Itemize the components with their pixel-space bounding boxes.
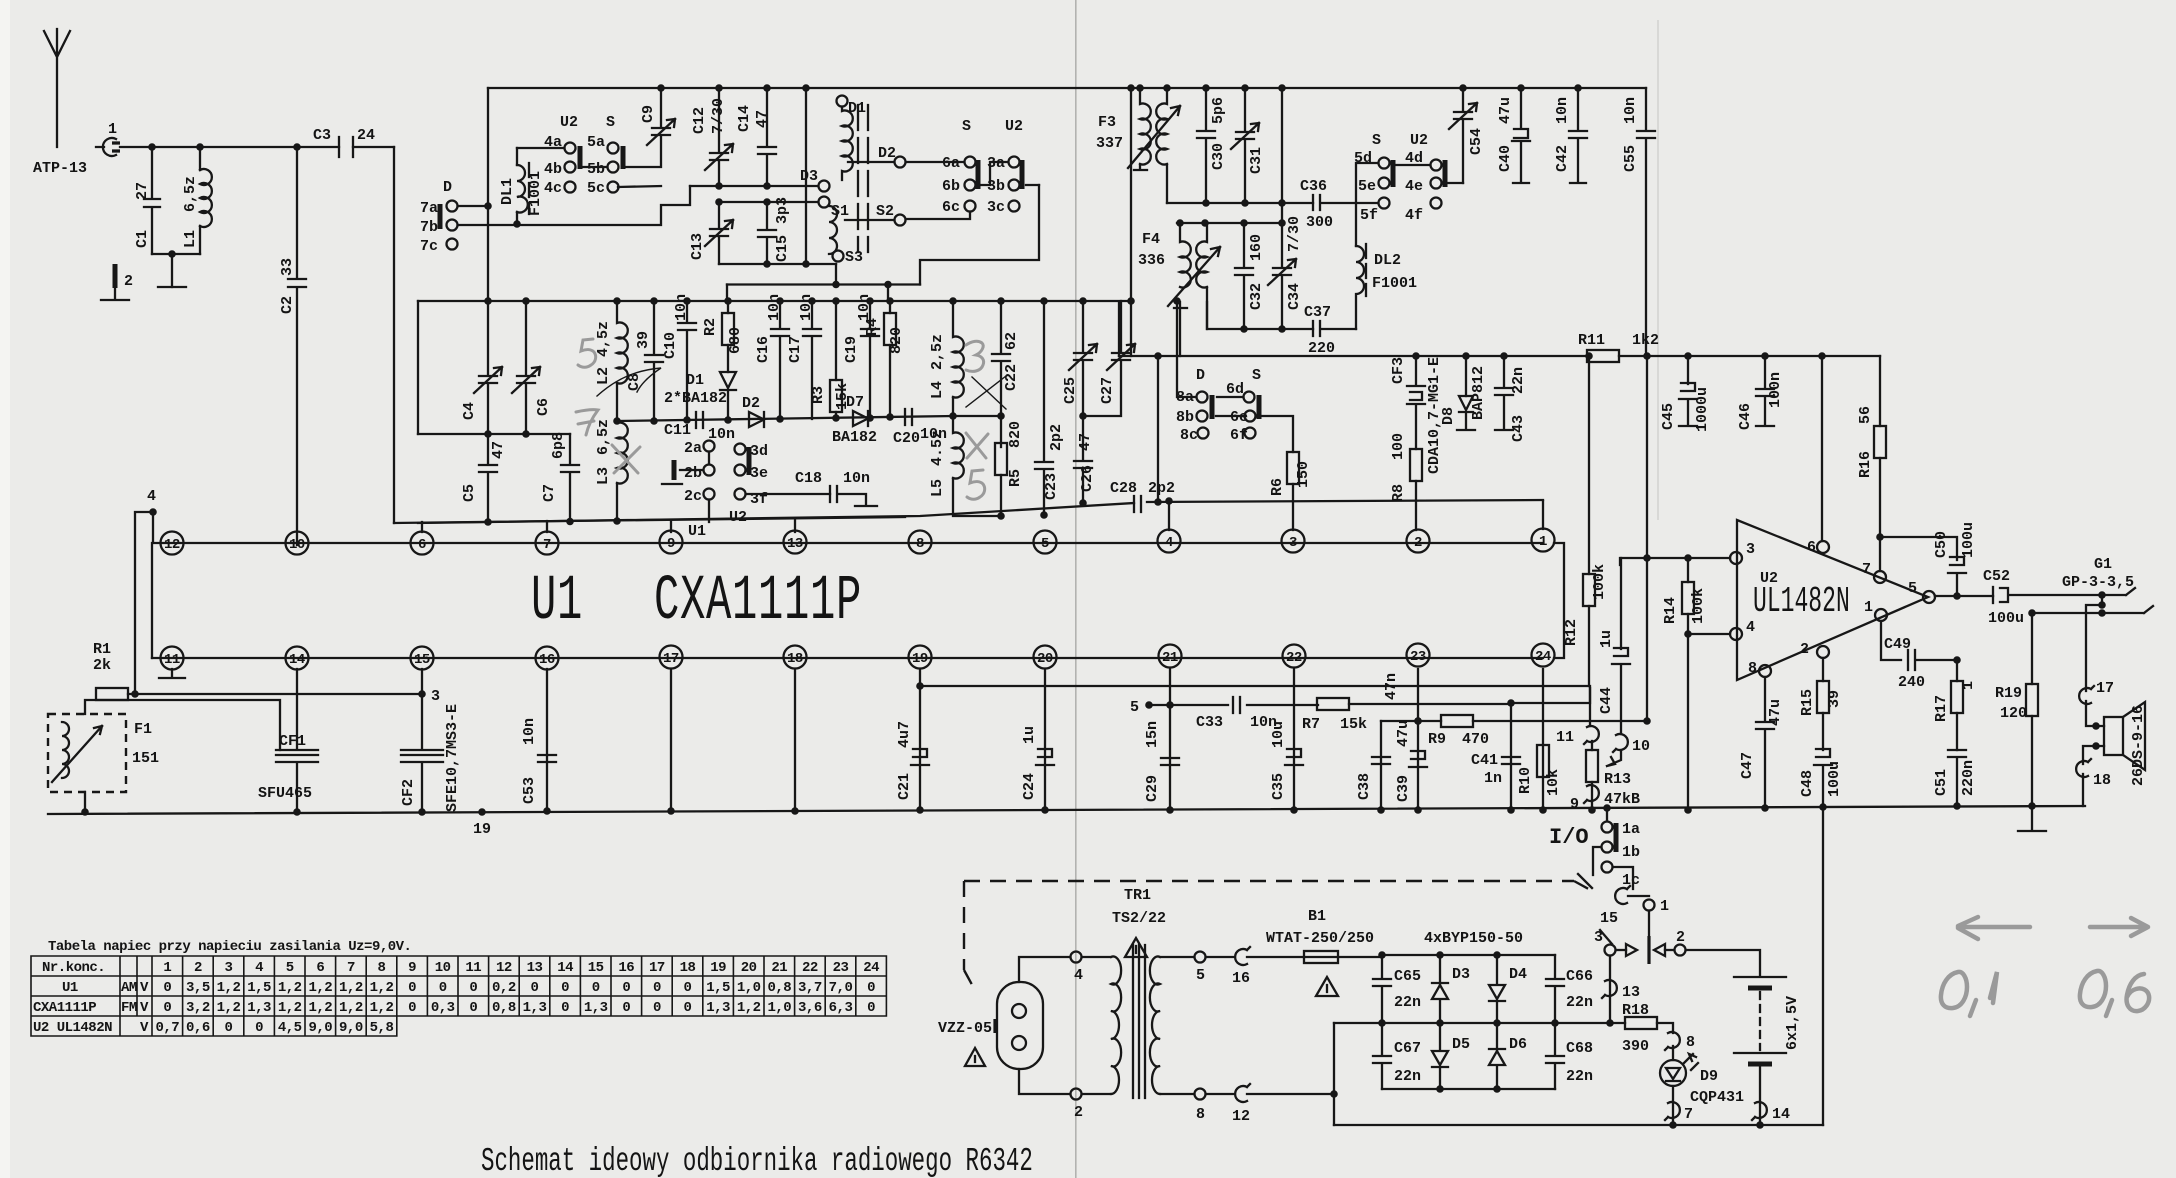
svg-text:1: 1 bbox=[1960, 681, 1977, 690]
svg-text:V: V bbox=[140, 1000, 149, 1016]
svg-text:1: 1 bbox=[1539, 534, 1547, 550]
svg-text:4: 4 bbox=[255, 960, 263, 976]
top supply rail bbox=[488, 87, 1646, 89]
svg-text:C18: C18 bbox=[795, 470, 822, 487]
capacitor C36 300 bbox=[1300, 178, 1378, 231]
svg-text:3p3: 3p3 bbox=[774, 197, 791, 224]
connector 1 ATP-13 bbox=[33, 121, 120, 177]
IC U1 pin 21 bbox=[1159, 645, 1182, 668]
wire S2 tap bbox=[845, 203, 906, 226]
capacitor C51 220n bbox=[1933, 750, 1977, 810]
svg-text:R9: R9 bbox=[1428, 731, 1446, 748]
wire AGC line from pin19 column bbox=[916, 682, 1590, 726]
rectifier label bbox=[1424, 930, 1523, 947]
IC U1 pin 9 bbox=[660, 531, 683, 554]
wire from C3 down to IF lower rail bbox=[393, 147, 395, 523]
svg-text:0,3: 0,3 bbox=[431, 1000, 455, 1016]
svg-text:18: 18 bbox=[680, 960, 696, 976]
resistor R14 100k bbox=[1662, 554, 1707, 814]
svg-text:10n: 10n bbox=[673, 294, 690, 321]
capacitor C55 10n bbox=[1622, 88, 1655, 356]
capacitor C43 22n bbox=[1495, 356, 1527, 442]
diode D5 bbox=[1432, 1023, 1470, 1089]
diode D6 bbox=[1489, 1023, 1527, 1089]
potentiometer R13 47kB bbox=[1556, 726, 1640, 814]
svg-text:5,8: 5,8 bbox=[370, 1020, 394, 1036]
svg-text:TR1: TR1 bbox=[1124, 887, 1151, 904]
svg-text:D: D bbox=[1196, 367, 1205, 384]
svg-text:1: 1 bbox=[1660, 898, 1669, 915]
svg-text:U2: U2 bbox=[1005, 118, 1023, 135]
svg-text:3c: 3c bbox=[987, 199, 1005, 216]
svg-text:C25: C25 bbox=[1062, 377, 1079, 404]
capacitor C34 7/30 (variable) bbox=[1268, 84, 1303, 333]
capacitor C17 10n bbox=[787, 294, 821, 419]
svg-text:4b: 4b bbox=[544, 161, 562, 178]
table header row bbox=[42, 960, 879, 976]
svg-text:1,0: 1,0 bbox=[767, 1000, 791, 1016]
svg-text:100: 100 bbox=[1390, 433, 1407, 460]
svg-text:13: 13 bbox=[1622, 984, 1640, 1001]
svg-text:AM: AM bbox=[121, 980, 137, 996]
svg-text:C32: C32 bbox=[1248, 283, 1265, 310]
switch contacts 4d 4e 4f (U2) bbox=[1396, 132, 1463, 224]
svg-text:160: 160 bbox=[1248, 234, 1265, 261]
node 19 on ground rail bbox=[473, 808, 491, 838]
svg-text:6: 6 bbox=[1807, 539, 1816, 556]
svg-text:16: 16 bbox=[618, 960, 634, 976]
svg-text:10n: 10n bbox=[1622, 97, 1639, 124]
svg-text:GP-3-3,5: GP-3-3,5 bbox=[2062, 574, 2134, 591]
IC U1 pin 7 bbox=[536, 532, 559, 555]
svg-text:1,3: 1,3 bbox=[247, 1000, 271, 1016]
svg-text:9,0: 9,0 bbox=[308, 1020, 332, 1036]
svg-text:D8: D8 bbox=[1440, 407, 1457, 425]
svg-text:7b: 7b bbox=[420, 219, 438, 236]
svg-text:0: 0 bbox=[255, 1020, 263, 1036]
svg-text:5c: 5c bbox=[587, 180, 605, 197]
svg-text:C47: C47 bbox=[1739, 752, 1756, 779]
svg-text:6: 6 bbox=[418, 537, 426, 553]
capacitor C37 220 bbox=[1304, 304, 1356, 357]
svg-text:9: 9 bbox=[408, 960, 416, 976]
loudspeaker 26DS-9-16 bbox=[2076, 680, 2147, 806]
svg-text:4xBYP150-50: 4xBYP150-50 bbox=[1424, 930, 1523, 947]
svg-text:DL1: DL1 bbox=[499, 178, 516, 205]
svg-text:3,6: 3,6 bbox=[798, 1000, 822, 1016]
svg-text:0: 0 bbox=[592, 980, 600, 996]
svg-text:SFE10,7MS3-E: SFE10,7MS3-E bbox=[444, 704, 461, 812]
svg-text:I/O: I/O bbox=[1549, 825, 1589, 850]
capacitor C9 (variable) bbox=[625, 84, 675, 167]
svg-text:R14: R14 bbox=[1662, 597, 1679, 624]
capacitor C26 47 bbox=[1074, 416, 1096, 507]
svg-text:D2: D2 bbox=[742, 395, 760, 412]
IC U1 pin 14 bbox=[286, 647, 309, 670]
svg-text:21: 21 bbox=[771, 960, 787, 976]
ceramic filter CF3 CDA10,7-MG1-E bbox=[1390, 356, 1443, 530]
capacitor C35 10u bbox=[1270, 721, 1303, 814]
resistor R11 1k2 bbox=[1578, 332, 1659, 362]
wire DL2 column bbox=[1356, 163, 1378, 246]
mains plug VZZ-05 bbox=[938, 982, 1043, 1069]
svg-text:0: 0 bbox=[867, 1000, 875, 1016]
svg-text:47n: 47n bbox=[1383, 673, 1400, 700]
IC U1 pin 24 bbox=[1532, 644, 1555, 667]
inductor L3 6,5z bbox=[595, 417, 628, 522]
svg-text:D2: D2 bbox=[878, 145, 896, 162]
svg-text:15k: 15k bbox=[1340, 716, 1367, 733]
switch contacts 2a 2b 2c bbox=[684, 440, 715, 522]
svg-text:6c: 6c bbox=[942, 199, 960, 216]
svg-text:820: 820 bbox=[1007, 421, 1024, 448]
svg-text:0: 0 bbox=[561, 1000, 569, 1016]
svg-text:6b: 6b bbox=[942, 178, 960, 195]
capacitor C40 47u bbox=[1497, 84, 1530, 183]
svg-text:23: 23 bbox=[833, 960, 849, 976]
capacitor C45 1000u bbox=[1660, 356, 1711, 432]
svg-text:S: S bbox=[1372, 132, 1381, 149]
svg-text:7: 7 bbox=[1684, 1106, 1693, 1123]
capacitor C50 100u bbox=[1880, 522, 1977, 597]
pencil note 0,1 bbox=[1941, 972, 1997, 1016]
svg-text:C29: C29 bbox=[1144, 775, 1161, 802]
svg-text:100u: 100u bbox=[1960, 522, 1977, 558]
svg-text:19: 19 bbox=[473, 821, 491, 838]
wire F4 lower line bbox=[1207, 302, 1313, 329]
output node bbox=[1935, 592, 1993, 600]
svg-text:3: 3 bbox=[431, 688, 440, 705]
svg-text:R12: R12 bbox=[1563, 619, 1580, 646]
svg-text:5: 5 bbox=[286, 960, 294, 976]
svg-text:C65: C65 bbox=[1394, 968, 1421, 985]
wire D2 tap bbox=[848, 145, 906, 168]
IC U1 pin 17 bbox=[660, 646, 683, 669]
svg-text:1k2: 1k2 bbox=[1632, 332, 1659, 349]
svg-text:FM: FM bbox=[121, 1000, 137, 1016]
svg-text:L2: L2 bbox=[595, 367, 612, 385]
svg-text:1,2: 1,2 bbox=[370, 980, 394, 996]
svg-text:1,2: 1,2 bbox=[278, 980, 302, 996]
wire input node bbox=[120, 143, 394, 151]
IC U1 name label bbox=[531, 566, 862, 638]
svg-text:6p8: 6p8 bbox=[550, 432, 567, 459]
svg-text:14: 14 bbox=[289, 652, 305, 668]
svg-text:C27: C27 bbox=[1099, 377, 1116, 404]
voltage table title bbox=[48, 939, 411, 955]
svg-text:10n: 10n bbox=[843, 470, 870, 487]
svg-text:22n: 22n bbox=[1394, 1068, 1421, 1085]
svg-text:47u: 47u bbox=[1497, 97, 1514, 124]
capacitor C14 47 bbox=[736, 84, 776, 186]
antenna bbox=[44, 29, 70, 147]
svg-text:21: 21 bbox=[1162, 650, 1178, 666]
capacitor C41 1n bbox=[1471, 699, 1520, 814]
svg-text:CF2: CF2 bbox=[400, 779, 417, 806]
capacitor C18 10n bbox=[795, 470, 877, 506]
switch contacts 6a 6b 6c (S) bbox=[906, 118, 978, 219]
svg-text:C12: C12 bbox=[691, 107, 708, 134]
svg-text:23: 23 bbox=[1410, 649, 1426, 665]
svg-text:18: 18 bbox=[2093, 772, 2111, 789]
svg-text:3: 3 bbox=[1746, 541, 1755, 558]
svg-text:14: 14 bbox=[557, 960, 573, 976]
svg-text:C24: C24 bbox=[1021, 773, 1038, 800]
svg-text:3: 3 bbox=[1594, 929, 1603, 946]
svg-text:22n: 22n bbox=[1510, 367, 1527, 394]
IC U1 pin 6 bbox=[411, 532, 434, 555]
pen curve over L2 bbox=[597, 368, 661, 396]
resistor R6 150 bbox=[1256, 416, 1312, 530]
IC U1 pin 3 bbox=[1282, 530, 1305, 553]
svg-text:V: V bbox=[140, 980, 149, 996]
svg-text:C35: C35 bbox=[1270, 773, 1287, 800]
svg-text:R3: R3 bbox=[810, 386, 827, 404]
svg-text:R1: R1 bbox=[93, 641, 111, 658]
capacitor C7 6p8 bbox=[541, 432, 579, 521]
svg-text:120: 120 bbox=[2000, 705, 2027, 722]
dashed chassis outline bbox=[964, 881, 1596, 992]
svg-text:C66: C66 bbox=[1566, 968, 1593, 985]
svg-text:10n: 10n bbox=[521, 718, 538, 745]
wire U1 pin row 1 bbox=[161, 542, 1543, 544]
svg-text:2b: 2b bbox=[684, 465, 702, 482]
svg-text:5e: 5e bbox=[1358, 178, 1376, 195]
capacitor C11 10n bbox=[664, 412, 735, 443]
resistor R16 56 bbox=[1857, 356, 1886, 571]
switch contacts 5d 5e 5f (S) bbox=[1354, 132, 1393, 224]
svg-text:10: 10 bbox=[1632, 738, 1650, 755]
svg-text:15n: 15n bbox=[1144, 721, 1161, 748]
svg-text:3e: 3e bbox=[750, 465, 768, 482]
svg-text:5p6: 5p6 bbox=[1210, 97, 1227, 124]
svg-text:R7: R7 bbox=[1302, 716, 1320, 733]
svg-text:CXA1111P: CXA1111P bbox=[33, 1000, 96, 1016]
capacitor C23 2p2 bbox=[1035, 297, 1065, 519]
svg-text:3,5: 3,5 bbox=[186, 980, 210, 996]
svg-text:R15: R15 bbox=[1799, 689, 1816, 716]
svg-text:1,3: 1,3 bbox=[584, 1000, 608, 1016]
svg-text:D3: D3 bbox=[800, 168, 818, 185]
svg-text:C51: C51 bbox=[1933, 769, 1950, 796]
svg-text:2*BA182: 2*BA182 bbox=[664, 390, 727, 407]
svg-text:6a: 6a bbox=[942, 155, 960, 172]
pen X over L4 bbox=[966, 376, 1006, 409]
wire 7a to box bbox=[458, 202, 492, 210]
svg-text:C10: C10 bbox=[662, 332, 679, 359]
wire U1 pin row 2 bbox=[152, 543, 1543, 658]
svg-text:7: 7 bbox=[543, 537, 551, 553]
capacitor C66 22n bbox=[1546, 955, 1593, 1023]
svg-text:680: 680 bbox=[727, 327, 744, 354]
svg-text:22n: 22n bbox=[1394, 994, 1421, 1011]
svg-text:10u: 10u bbox=[1270, 721, 1287, 748]
svg-text:1u: 1u bbox=[1021, 726, 1038, 744]
svg-text:R13: R13 bbox=[1604, 771, 1631, 788]
svg-text:20: 20 bbox=[741, 960, 757, 976]
connector 7a 7b 7c (D) bbox=[420, 179, 458, 255]
svg-text:9,0: 9,0 bbox=[339, 1020, 363, 1036]
svg-text:D6: D6 bbox=[1509, 1036, 1527, 1053]
svg-text:F1: F1 bbox=[134, 721, 152, 738]
capacitor C29 15n bbox=[1144, 721, 1179, 814]
svg-text:8: 8 bbox=[1686, 1034, 1695, 1051]
svg-text:1,2: 1,2 bbox=[217, 980, 241, 996]
svg-text:C14: C14 bbox=[736, 105, 753, 132]
svg-text:7c: 7c bbox=[420, 238, 438, 255]
svg-text:26DS-9-16: 26DS-9-16 bbox=[2130, 705, 2147, 786]
svg-text:CQP431: CQP431 bbox=[1690, 1089, 1744, 1106]
IC U1 pin 4 bbox=[1158, 530, 1181, 553]
svg-text:2: 2 bbox=[1676, 929, 1685, 946]
wire bracket pin1-pin24 bbox=[1554, 543, 1564, 658]
svg-text:11: 11 bbox=[465, 960, 481, 976]
diode D3 bbox=[1432, 955, 1470, 1023]
svg-text:0: 0 bbox=[439, 980, 447, 996]
svg-text:F1001: F1001 bbox=[527, 171, 544, 216]
svg-text:D7: D7 bbox=[846, 394, 864, 411]
svg-text:L3: L3 bbox=[595, 467, 612, 485]
svg-text:10n: 10n bbox=[766, 294, 783, 321]
capacitor C44 1u bbox=[1598, 558, 1630, 734]
svg-text:0: 0 bbox=[653, 980, 661, 996]
svg-text:V: V bbox=[140, 1020, 149, 1036]
svg-text:BA182: BA182 bbox=[832, 429, 877, 446]
capacitor C19 10n bbox=[843, 294, 879, 422]
inductor L1 6,5z bbox=[182, 147, 212, 254]
svg-text:U1: U1 bbox=[688, 523, 706, 540]
svg-text:D4: D4 bbox=[1509, 966, 1527, 983]
svg-text:0,6: 0,6 bbox=[186, 1020, 210, 1036]
svg-text:19: 19 bbox=[912, 651, 928, 667]
switch contacts 5a 5b 5c (S) bbox=[583, 114, 623, 197]
svg-text:S: S bbox=[962, 118, 971, 135]
svg-text:0: 0 bbox=[408, 1000, 416, 1016]
svg-text:1,2: 1,2 bbox=[737, 1000, 761, 1016]
svg-text:18: 18 bbox=[787, 651, 803, 667]
capacitor C21 4u7 bbox=[896, 721, 929, 814]
warning triangle 1 bbox=[965, 1048, 985, 1066]
svg-text:D: D bbox=[443, 179, 452, 196]
IC U1 pin 1 bbox=[1532, 529, 1555, 552]
svg-text:0,2: 0,2 bbox=[492, 980, 516, 996]
svg-text:U2: U2 bbox=[1410, 132, 1428, 149]
svg-text:7: 7 bbox=[1862, 561, 1871, 578]
voltage table grid bbox=[31, 956, 886, 1036]
bridge bottom line bbox=[1382, 1085, 1555, 1093]
svg-text:6: 6 bbox=[316, 960, 324, 976]
handwritten pencil 5 bbox=[578, 339, 596, 367]
svg-text:R17: R17 bbox=[1933, 695, 1950, 722]
svg-text:R16: R16 bbox=[1857, 451, 1874, 478]
svg-text:CF3: CF3 bbox=[1390, 357, 1407, 384]
capacitor C39 47u bbox=[1395, 717, 1427, 814]
svg-text:0: 0 bbox=[622, 1000, 630, 1016]
svg-text:22n: 22n bbox=[1566, 994, 1593, 1011]
svg-text:10n: 10n bbox=[1554, 97, 1571, 124]
svg-text:100u: 100u bbox=[1988, 610, 2024, 627]
svg-text:1u: 1u bbox=[1598, 630, 1615, 648]
capacitor C25 (variable) bbox=[1062, 297, 1097, 420]
wire rail to input bbox=[1643, 352, 1651, 721]
svg-text:62: 62 bbox=[1003, 332, 1020, 350]
IC U1 pin 19 bbox=[909, 646, 932, 669]
svg-text:C21: C21 bbox=[896, 773, 913, 800]
svg-text:10k: 10k bbox=[1545, 769, 1562, 796]
svg-text:4: 4 bbox=[1074, 967, 1083, 984]
resistor R9 470 bbox=[1381, 715, 1651, 748]
svg-text:24: 24 bbox=[863, 960, 879, 976]
svg-text:C53: C53 bbox=[521, 777, 538, 804]
svg-text:Tabela napiec przy napieciu za: Tabela napiec przy napieciu zasilania Uz… bbox=[48, 939, 411, 955]
svg-text:C22: C22 bbox=[1003, 364, 1020, 391]
svg-text:2p2: 2p2 bbox=[1048, 424, 1065, 451]
resistor R18 390 bbox=[1622, 1002, 1673, 1055]
svg-text:6,3: 6,3 bbox=[829, 1000, 853, 1016]
svg-text:0: 0 bbox=[561, 980, 569, 996]
svg-text:20: 20 bbox=[1037, 651, 1053, 667]
svg-text:2: 2 bbox=[1414, 535, 1422, 551]
diode D8 BAP812 bbox=[1440, 356, 1487, 430]
svg-text:6,5z: 6,5z bbox=[182, 176, 199, 212]
svg-text:17: 17 bbox=[663, 651, 679, 667]
svg-text:D1: D1 bbox=[686, 372, 704, 389]
svg-text:470: 470 bbox=[1462, 731, 1489, 748]
handwritten pencil X over L5 bbox=[966, 433, 988, 458]
switch contacts 4a 4b 4c (U2) bbox=[517, 114, 580, 197]
svg-text:100n: 100n bbox=[1767, 372, 1784, 408]
svg-text:0: 0 bbox=[469, 1000, 477, 1016]
svg-text:R2: R2 bbox=[702, 318, 719, 336]
capacitor C24 1u bbox=[1021, 726, 1054, 814]
svg-text:U1: U1 bbox=[62, 980, 78, 996]
svg-text:1,2: 1,2 bbox=[370, 1000, 394, 1016]
switch contacts 8a 8b 8c (D) bbox=[1173, 297, 1212, 444]
svg-text:L1: L1 bbox=[182, 230, 199, 248]
svg-text:WTAT-250/250: WTAT-250/250 bbox=[1266, 930, 1374, 947]
svg-text:16: 16 bbox=[1232, 970, 1250, 987]
svg-text:19: 19 bbox=[710, 960, 726, 976]
svg-text:2a: 2a bbox=[684, 440, 702, 457]
capacitor C47 47u bbox=[1739, 677, 1784, 812]
svg-text:16: 16 bbox=[539, 652, 555, 668]
svg-text:SFU465: SFU465 bbox=[258, 785, 312, 802]
svg-text:24: 24 bbox=[1535, 649, 1551, 665]
ceramic filter CF2 SFE10,7MS3-E bbox=[400, 669, 461, 812]
ground at pin 11 bbox=[159, 669, 185, 678]
svg-text:10n: 10n bbox=[798, 294, 815, 321]
svg-text:5a: 5a bbox=[587, 134, 605, 151]
jack terminal 2 with ground bbox=[101, 264, 133, 300]
svg-text:D9: D9 bbox=[1700, 1068, 1718, 1085]
capacitor C52 100u bbox=[1983, 568, 2024, 627]
wire C4/C6 bottom link bbox=[418, 430, 570, 438]
svg-text:4,5z: 4,5z bbox=[595, 321, 612, 357]
svg-text:7a: 7a bbox=[420, 200, 438, 217]
svg-text:5: 5 bbox=[1041, 536, 1049, 552]
svg-text:1: 1 bbox=[1864, 599, 1873, 616]
svg-text:C7: C7 bbox=[541, 484, 558, 502]
svg-text:C48: C48 bbox=[1799, 770, 1816, 797]
IC U1 pin 18 bbox=[784, 646, 807, 669]
secondary top lead with connectors 5 / 16 bbox=[1160, 947, 1304, 987]
capacitor C42 10n bbox=[1554, 84, 1587, 183]
secondary bottom lead with connectors 8 / 12 bbox=[1160, 1084, 1334, 1125]
svg-text:0: 0 bbox=[653, 1000, 661, 1016]
IC U1 pin 15 bbox=[411, 647, 434, 670]
svg-text:8c: 8c bbox=[1180, 427, 1198, 444]
node 4 bbox=[135, 488, 161, 694]
